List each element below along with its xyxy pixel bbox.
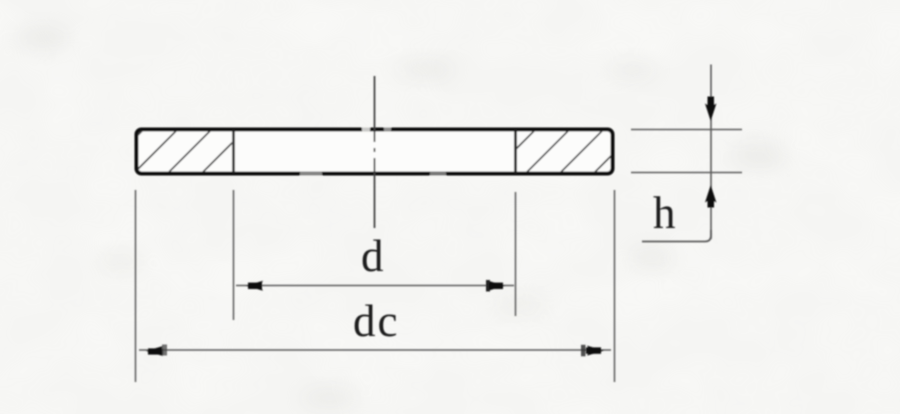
dimension line d (236, 285, 514, 287)
h arrow top (points down) (705, 104, 716, 122)
h arrow bottom (points up) (705, 185, 716, 203)
extension line inner-right (515, 192, 517, 316)
dimension line dc (139, 349, 611, 351)
arrow dc right (587, 346, 604, 356)
svg-text:dc: dc (353, 296, 399, 346)
extension line inner-left (233, 190, 235, 320)
h extension line bottom (631, 172, 742, 174)
edge scan-light patch bottom (300, 171, 322, 177)
edge scan-light patch top (362, 127, 370, 133)
arrow dc left (146, 346, 163, 356)
svg-text:d: d (361, 231, 384, 281)
vertical centerline (374, 76, 376, 228)
extension line outer-right (614, 190, 616, 382)
arrow d right (488, 281, 505, 291)
h leader horizontal (642, 230, 711, 242)
inner bore line right (514, 130, 517, 173)
extension line outer-left (135, 190, 137, 382)
inner bore line left (232, 130, 235, 173)
svg-text:h: h (653, 188, 676, 238)
arrow d left (246, 281, 263, 291)
washer body outline (137, 130, 613, 174)
h extension line top (631, 129, 742, 131)
h dimension vertical line (710, 65, 712, 240)
